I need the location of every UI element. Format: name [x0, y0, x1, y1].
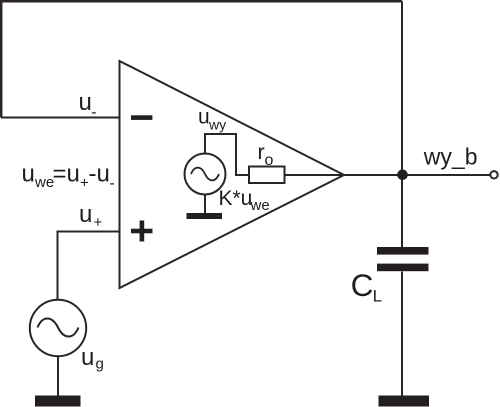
svg-text:C: C: [351, 267, 374, 303]
svg-text:g: g: [96, 356, 104, 373]
svg-text:L: L: [373, 287, 382, 306]
svg-text:wy_b: wy_b: [423, 143, 478, 169]
svg-text:-u: -u: [89, 161, 110, 188]
svg-text:we: we: [34, 174, 54, 191]
svg-text:u: u: [79, 201, 92, 228]
svg-text:o: o: [265, 152, 274, 169]
svg-text:u: u: [22, 161, 35, 188]
svg-text:-: -: [110, 175, 115, 192]
svg-text:K*u: K*u: [219, 187, 253, 210]
svg-text:u: u: [79, 89, 92, 116]
svg-text:we: we: [250, 197, 270, 214]
svg-text:u: u: [81, 344, 94, 371]
svg-text:-: -: [91, 104, 96, 121]
svg-text:u: u: [198, 106, 210, 129]
svg-text:=u: =u: [53, 161, 80, 188]
svg-text:wy: wy: [208, 117, 226, 133]
svg-text:+: +: [94, 214, 103, 231]
